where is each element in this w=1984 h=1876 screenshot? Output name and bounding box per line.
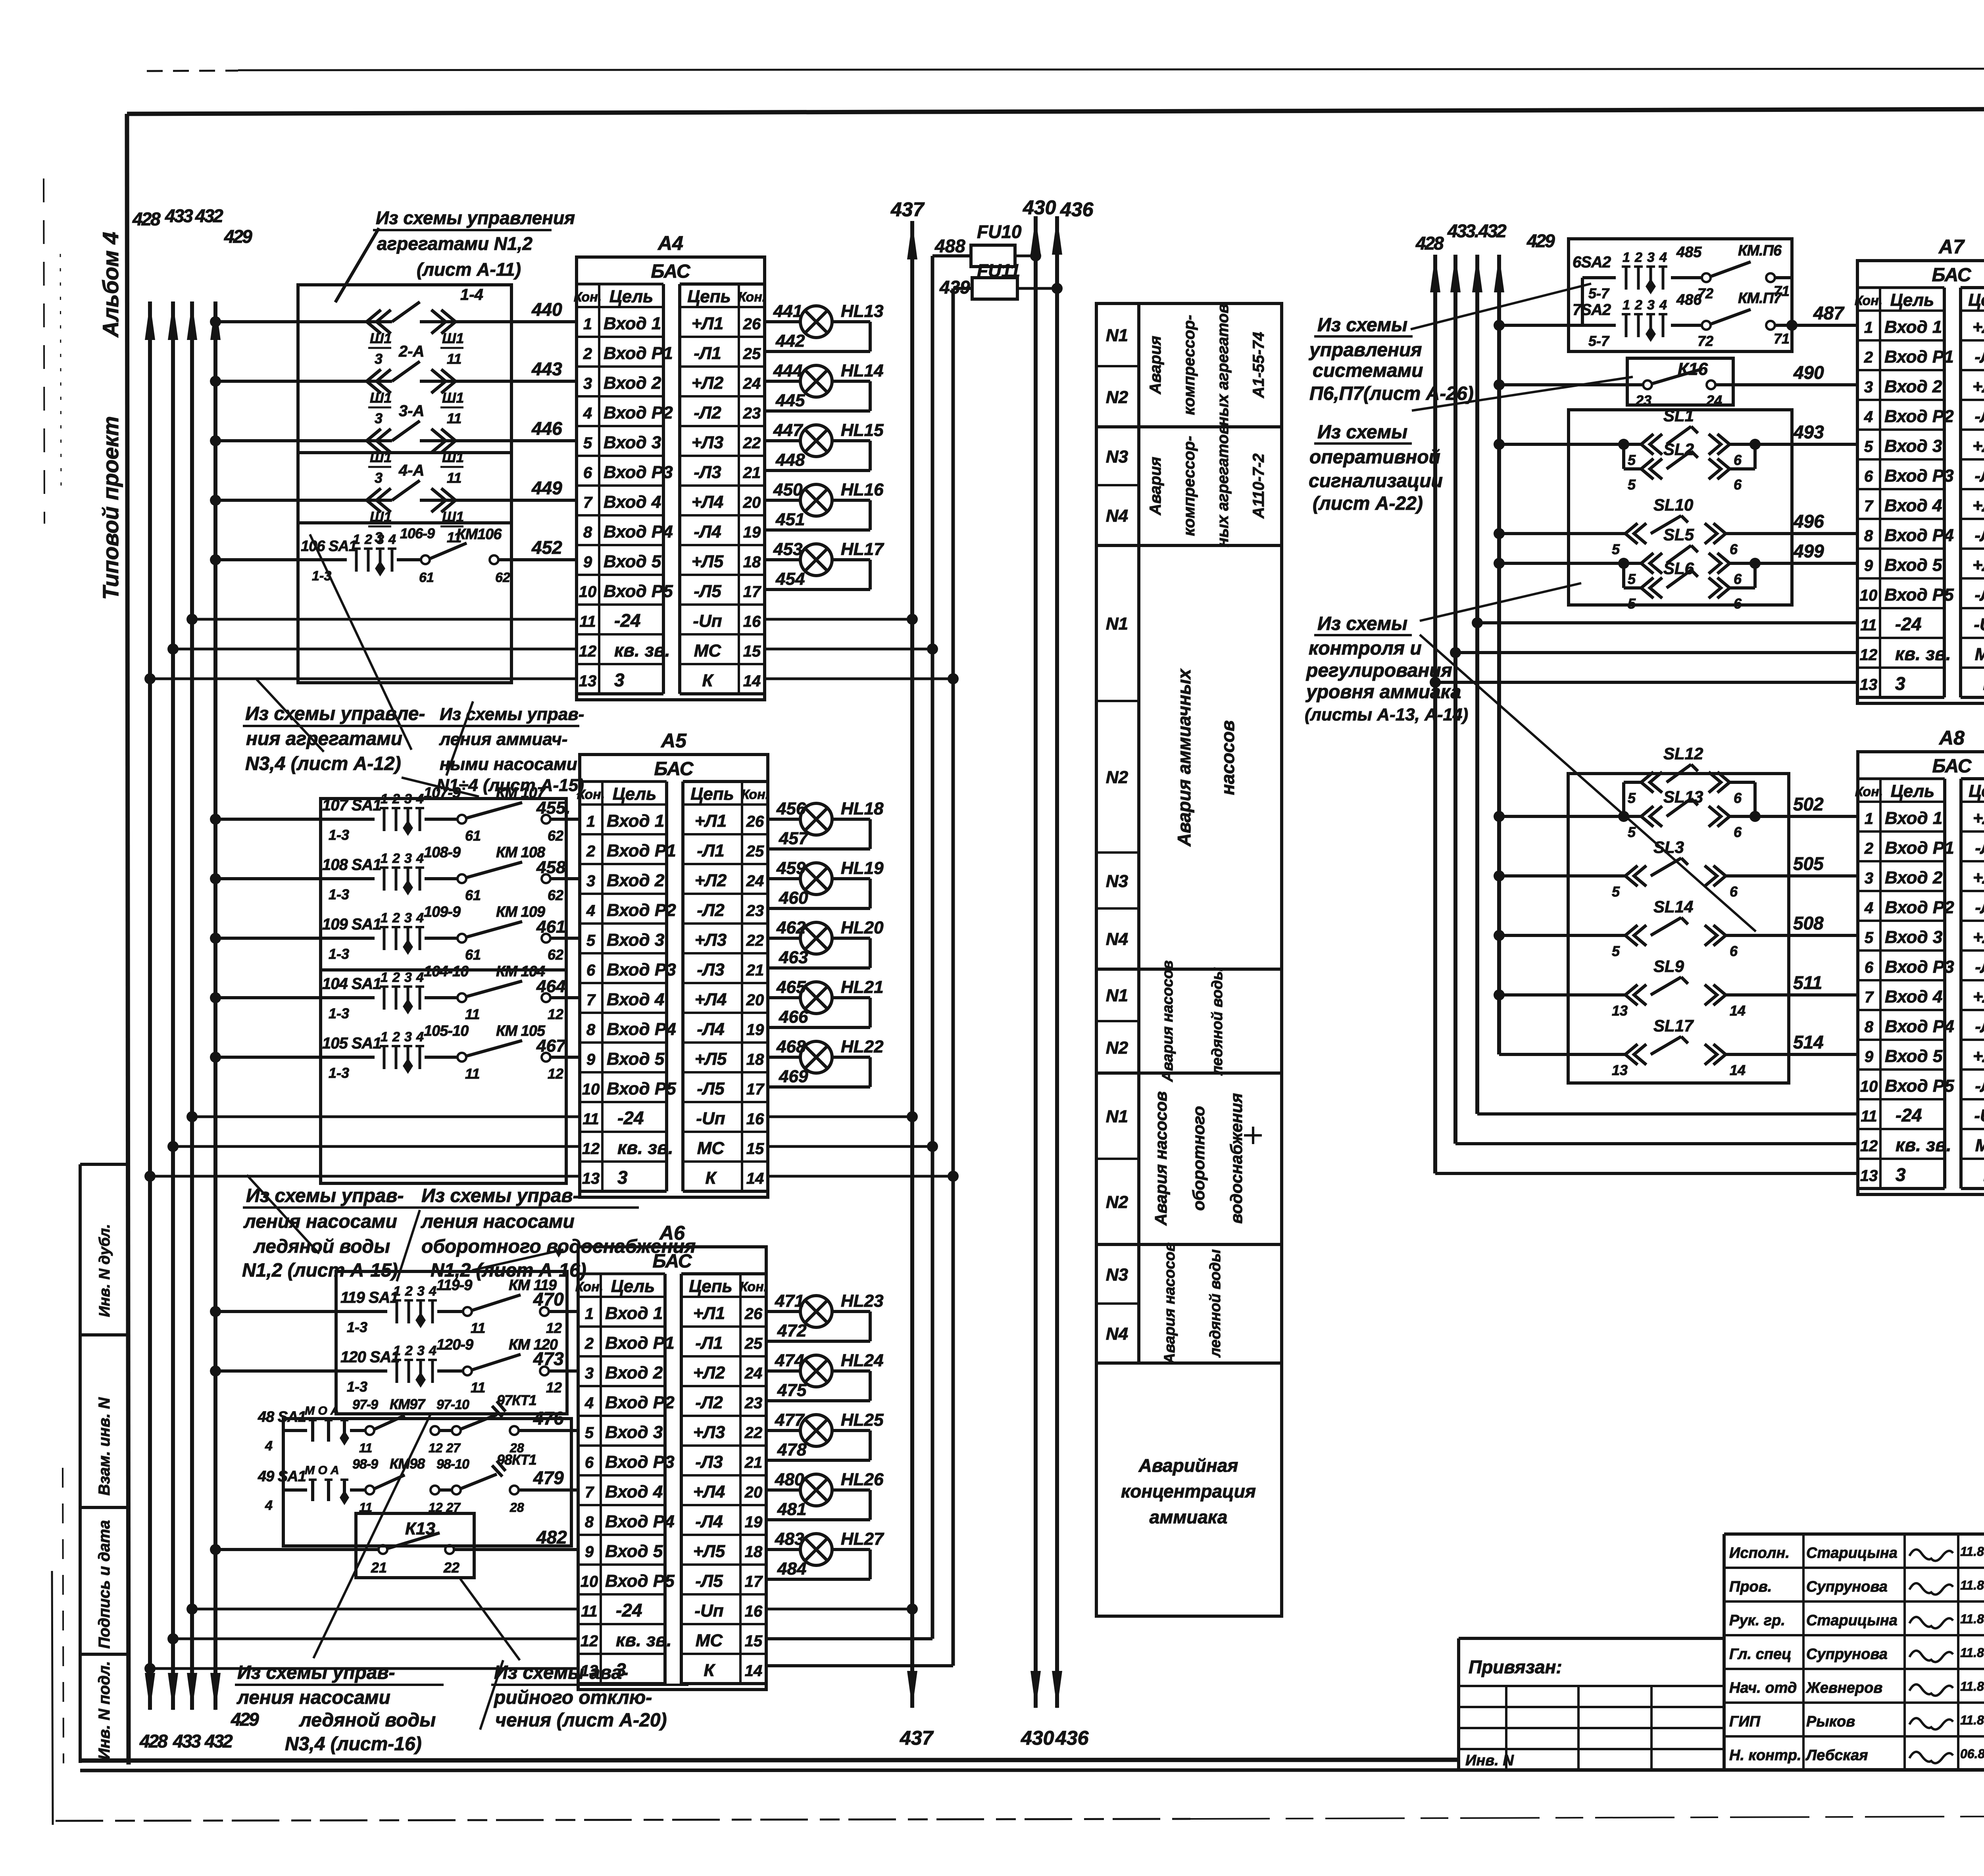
svg-text:428: 428 <box>139 1731 168 1751</box>
svg-text:Ш1: Ш1 <box>370 330 392 346</box>
svg-text:ления насосами: ления насосами <box>421 1211 575 1232</box>
svg-text:464: 464 <box>536 977 565 996</box>
svg-text:4: 4 <box>583 405 592 422</box>
svg-text:3: 3 <box>617 1167 628 1188</box>
svg-text:62: 62 <box>548 947 563 963</box>
svg-text:агрегатами N1,2: агрегатами N1,2 <box>377 233 533 254</box>
svg-text:Вход Р2: Вход Р2 <box>604 403 673 422</box>
svg-text:6: 6 <box>1734 824 1742 840</box>
svg-text:+Л4: +Л4 <box>1973 987 1984 1006</box>
svg-text:17: 17 <box>746 1081 765 1098</box>
svg-text:48 SA1: 48 SA1 <box>258 1409 306 1425</box>
svg-text:1: 1 <box>393 1343 401 1358</box>
svg-text:МС: МС <box>1975 1136 1984 1155</box>
svg-text:10: 10 <box>579 583 597 601</box>
svg-text:4: 4 <box>1659 250 1667 265</box>
svg-text:-Л1: -Л1 <box>697 841 724 860</box>
svg-text:Инв. N дубл.: Инв. N дубл. <box>96 1224 113 1317</box>
svg-text:Из схемы управления: Из схемы управления <box>376 207 575 228</box>
svg-text:-24: -24 <box>616 1600 642 1621</box>
svg-text:К: К <box>702 671 714 690</box>
svg-text:2: 2 <box>1634 298 1642 313</box>
svg-text:Вход 2: Вход 2 <box>605 1363 663 1383</box>
svg-text:4: 4 <box>265 1438 273 1454</box>
svg-text:437: 437 <box>890 198 925 221</box>
svg-text:22: 22 <box>744 1424 763 1442</box>
svg-text:ния агрегатами: ния агрегатами <box>246 728 402 749</box>
svg-text:Авария насосов: Авария насосов <box>1159 960 1176 1082</box>
svg-text:443: 443 <box>531 359 562 379</box>
svg-text:3: 3 <box>1647 298 1655 313</box>
svg-text:7SA2: 7SA2 <box>1573 301 1611 319</box>
svg-text:9: 9 <box>586 1051 596 1068</box>
svg-text:23: 23 <box>1635 392 1651 409</box>
svg-text:Цепь: Цепь <box>1968 290 1984 310</box>
svg-text:12: 12 <box>548 1066 563 1082</box>
svg-text:А8: А8 <box>1938 727 1965 749</box>
svg-text:16: 16 <box>745 1603 763 1620</box>
svg-text:3: 3 <box>404 851 412 866</box>
svg-text:20: 20 <box>746 991 764 1009</box>
svg-text:кв. зв.: кв. зв. <box>616 1630 672 1650</box>
svg-text:кв. зв.: кв. зв. <box>1896 1135 1951 1155</box>
svg-text:-Uп: -Uп <box>1974 615 1984 634</box>
svg-text:459: 459 <box>776 858 806 878</box>
svg-text:120 SA1: 120 SA1 <box>340 1348 400 1366</box>
svg-text:МС: МС <box>694 641 722 661</box>
svg-text:-Л4: -Л4 <box>695 1512 723 1531</box>
svg-text:компрессор-: компрессор- <box>1180 315 1198 415</box>
svg-text:445: 445 <box>775 391 805 410</box>
svg-text:20: 20 <box>743 494 761 511</box>
svg-text:21: 21 <box>746 962 764 979</box>
svg-text:13: 13 <box>1612 1062 1628 1078</box>
svg-text:436: 436 <box>1055 1727 1089 1749</box>
svg-text:22: 22 <box>746 932 764 949</box>
svg-text:-Uп: -Uп <box>694 1601 723 1621</box>
svg-text:4: 4 <box>1864 408 1873 426</box>
svg-text:3: 3 <box>1895 673 1905 694</box>
svg-text:428: 428 <box>1415 233 1444 253</box>
svg-text:1-3: 1-3 <box>329 886 349 902</box>
svg-text:Вход 2: Вход 2 <box>1884 377 1942 396</box>
svg-text:HL17: HL17 <box>841 540 884 559</box>
svg-text:SL1: SL1 <box>1663 406 1694 425</box>
svg-text:Взам. инв. N: Взам. инв. N <box>96 1397 113 1496</box>
svg-text:11: 11 <box>447 470 461 486</box>
svg-text:Старицына: Старицына <box>1806 1612 1897 1629</box>
svg-text:Из схемы: Из схемы <box>1317 315 1407 336</box>
svg-text:98-9: 98-9 <box>352 1457 378 1472</box>
svg-text:А4: А4 <box>657 232 683 254</box>
svg-text:Вход 2: Вход 2 <box>607 871 665 890</box>
svg-text:433: 433 <box>165 205 193 226</box>
svg-text:HL23: HL23 <box>841 1291 884 1311</box>
svg-text:N1: N1 <box>1106 326 1128 345</box>
svg-text:Ш1: Ш1 <box>370 509 392 525</box>
svg-text:-Л2: -Л2 <box>697 901 725 920</box>
svg-text:14: 14 <box>1730 1062 1746 1078</box>
svg-text:8: 8 <box>1864 527 1873 545</box>
svg-text:15: 15 <box>743 643 761 660</box>
svg-text:6: 6 <box>1734 476 1742 493</box>
svg-text:+Л5: +Л5 <box>695 1049 727 1069</box>
svg-text:Вход 1: Вход 1 <box>607 811 664 831</box>
svg-text:3: 3 <box>375 470 383 486</box>
svg-text:Из схемы управ-: Из схемы управ- <box>246 1185 404 1206</box>
svg-text:N2: N2 <box>1106 1192 1128 1212</box>
svg-text:оперативной: оперативной <box>1309 447 1440 468</box>
svg-text:476: 476 <box>533 1408 564 1429</box>
svg-text:+Л2: +Л2 <box>695 871 727 890</box>
svg-text:Цель: Цель <box>613 784 657 804</box>
svg-text:441: 441 <box>773 301 802 321</box>
svg-text:регулирования: регулирования <box>1305 660 1452 681</box>
svg-text:-Л2: -Л2 <box>1975 898 1984 917</box>
svg-text:-24: -24 <box>1896 1105 1922 1125</box>
svg-text:Инв. N: Инв. N <box>1465 1752 1514 1769</box>
svg-text:-Uп: -Uп <box>696 1109 725 1128</box>
svg-text:11: 11 <box>583 1110 599 1128</box>
svg-text:Авария: Авария <box>1147 457 1164 515</box>
svg-text:451: 451 <box>775 510 805 529</box>
svg-text:8: 8 <box>583 524 592 541</box>
svg-text:Инв. N подл.: Инв. N подл. <box>96 1661 113 1760</box>
svg-text:А110-7-2: А110-7-2 <box>1250 453 1267 519</box>
svg-text:Старицына: Старицына <box>1806 1545 1897 1561</box>
svg-text:Вход 3: Вход 3 <box>604 433 661 452</box>
svg-text:уровня аммиака: уровня аммиака <box>1305 682 1461 703</box>
svg-text:N3: N3 <box>1106 447 1128 467</box>
svg-text:4: 4 <box>1659 298 1667 313</box>
svg-text:HL25: HL25 <box>841 1410 884 1430</box>
svg-text:10: 10 <box>582 1081 600 1098</box>
svg-text:28: 28 <box>509 1500 524 1515</box>
svg-text:1: 1 <box>381 1029 388 1045</box>
svg-text:4: 4 <box>1864 899 1873 917</box>
svg-text:-Л1: -Л1 <box>1975 838 1984 858</box>
svg-text:2: 2 <box>392 1029 400 1045</box>
svg-text:3: 3 <box>1864 378 1873 396</box>
svg-text:HL21: HL21 <box>841 977 884 997</box>
svg-text:Пров.: Пров. <box>1729 1578 1772 1595</box>
svg-text:2: 2 <box>405 1284 413 1299</box>
svg-text:453: 453 <box>773 540 802 559</box>
svg-text:11: 11 <box>359 1441 372 1455</box>
svg-text:3: 3 <box>1647 250 1655 265</box>
svg-text:+Л3: +Л3 <box>693 1423 725 1442</box>
svg-text:61: 61 <box>419 570 434 585</box>
svg-text:1-3: 1-3 <box>347 1319 367 1335</box>
svg-text:БАС: БАС <box>651 261 690 282</box>
svg-text:аммиака: аммиака <box>1150 1507 1228 1527</box>
svg-text:-Л5: -Л5 <box>694 582 721 601</box>
svg-text:475: 475 <box>777 1381 807 1400</box>
svg-text:Кон.: Кон. <box>574 290 602 305</box>
svg-text:106-9: 106-9 <box>400 525 435 541</box>
svg-text:N3,4 (лист-16): N3,4 (лист-16) <box>285 1734 422 1755</box>
svg-text:Вход 2: Вход 2 <box>604 373 661 393</box>
svg-text:контроля и: контроля и <box>1309 638 1422 659</box>
svg-text:водоснабжения: водоснабжения <box>1227 1093 1246 1223</box>
svg-text:12: 12 <box>548 1006 563 1022</box>
svg-text:5: 5 <box>1612 541 1620 557</box>
svg-text:Вход Р5: Вход Р5 <box>604 582 673 601</box>
svg-text:5: 5 <box>583 434 592 452</box>
svg-text:429: 429 <box>224 226 252 247</box>
svg-text:(лист А-11): (лист А-11) <box>417 259 521 280</box>
svg-text:SL5: SL5 <box>1663 525 1694 544</box>
svg-text:Вход 5: Вход 5 <box>604 552 661 571</box>
svg-text:11.85: 11.85 <box>1960 1544 1984 1559</box>
svg-text:12: 12 <box>1860 1137 1878 1155</box>
svg-text:481: 481 <box>777 1500 806 1519</box>
svg-text:7: 7 <box>583 494 593 511</box>
svg-text:11: 11 <box>1861 1108 1877 1125</box>
svg-text:11: 11 <box>581 1603 598 1620</box>
svg-text:Цепь: Цепь <box>689 1277 732 1296</box>
svg-text:1: 1 <box>1623 298 1630 313</box>
svg-text:М О А: М О А <box>305 1464 339 1477</box>
svg-text:8: 8 <box>585 1513 594 1531</box>
svg-text:ных агрегатов: ных агрегатов <box>1214 425 1232 547</box>
svg-text:508: 508 <box>1793 913 1824 933</box>
svg-text:Вход Р4: Вход Р4 <box>1884 526 1954 545</box>
svg-text:23: 23 <box>744 1394 763 1412</box>
svg-text:-Л5: -Л5 <box>697 1079 725 1098</box>
svg-text:4: 4 <box>416 851 424 866</box>
svg-text:N3: N3 <box>1106 872 1128 891</box>
svg-text:11.85: 11.85 <box>1960 1578 1984 1592</box>
svg-text:1-3: 1-3 <box>329 1005 349 1022</box>
svg-text:119 SA1: 119 SA1 <box>340 1289 398 1306</box>
svg-text:+Л5: +Л5 <box>1972 555 1984 575</box>
svg-text:120-9: 120-9 <box>436 1336 473 1353</box>
svg-text:23: 23 <box>746 902 764 920</box>
svg-text:4: 4 <box>265 1498 273 1513</box>
svg-text:ления насосами: ления насосами <box>243 1211 397 1232</box>
svg-text:6: 6 <box>1864 468 1873 485</box>
svg-text:448: 448 <box>775 450 805 470</box>
svg-text:Супрунова: Супрунова <box>1806 1646 1888 1663</box>
svg-text:472: 472 <box>777 1321 807 1340</box>
svg-text:430: 430 <box>1023 196 1056 219</box>
svg-text:109 SA1: 109 SA1 <box>322 916 381 933</box>
svg-text:Вход Р4: Вход Р4 <box>605 1512 675 1531</box>
svg-text:1-4: 1-4 <box>460 286 483 303</box>
svg-text:3: 3 <box>404 1029 412 1045</box>
svg-text:оборотного: оборотного <box>1189 1106 1208 1211</box>
svg-text:3: 3 <box>1896 1164 1906 1185</box>
svg-text:3: 3 <box>375 351 383 367</box>
svg-text:HL22: HL22 <box>841 1037 884 1056</box>
svg-text:1-3: 1-3 <box>329 827 349 843</box>
svg-text:ледяной воды: ледяной воды <box>299 1710 436 1731</box>
svg-text:446: 446 <box>531 418 562 439</box>
svg-text:Вход 1: Вход 1 <box>1885 808 1942 828</box>
svg-text:1-3: 1-3 <box>329 946 349 962</box>
svg-text:-Л2: -Л2 <box>1974 407 1984 426</box>
svg-text:5-7: 5-7 <box>1588 285 1610 301</box>
svg-text:Альбом 4: Альбом 4 <box>98 232 123 338</box>
svg-text:А7: А7 <box>1938 236 1965 258</box>
svg-text:SL13: SL13 <box>1663 787 1703 806</box>
svg-text:5: 5 <box>585 1424 594 1442</box>
svg-text:17: 17 <box>745 1573 763 1590</box>
svg-text:2: 2 <box>583 345 592 363</box>
svg-text:5: 5 <box>1864 438 1873 455</box>
svg-text:470: 470 <box>533 1289 564 1310</box>
svg-text:Ш1: Ш1 <box>370 449 392 465</box>
svg-text:457: 457 <box>779 829 809 848</box>
svg-text:9: 9 <box>1864 557 1873 574</box>
svg-text:493: 493 <box>1793 422 1824 442</box>
svg-text:1-3: 1-3 <box>347 1379 367 1395</box>
svg-text:3: 3 <box>404 791 412 806</box>
svg-text:Цель: Цель <box>1891 782 1935 801</box>
svg-text:SL17: SL17 <box>1653 1016 1694 1035</box>
svg-text:Кон.: Кон. <box>1855 293 1882 308</box>
svg-text:Вход Р2: Вход Р2 <box>607 901 676 920</box>
svg-text:Авария: Авария <box>1147 336 1164 394</box>
svg-text:11.85: 11.85 <box>1960 1646 1984 1660</box>
svg-text:SL2: SL2 <box>1663 440 1694 459</box>
svg-text:462: 462 <box>776 918 806 937</box>
svg-text:5: 5 <box>1612 943 1620 959</box>
svg-text:кв. зв.: кв. зв. <box>617 1137 673 1158</box>
svg-text:Ш1: Ш1 <box>442 509 464 525</box>
svg-text:Вход 1: Вход 1 <box>604 314 661 333</box>
svg-text:7: 7 <box>1865 989 1874 1006</box>
svg-text:485: 485 <box>1676 244 1702 261</box>
svg-text:11: 11 <box>447 410 461 426</box>
svg-text:5: 5 <box>1628 790 1636 806</box>
svg-text:Вход Р3: Вход Р3 <box>1884 466 1954 486</box>
svg-text:МС: МС <box>697 1139 725 1158</box>
svg-text:430: 430 <box>1021 1727 1054 1749</box>
svg-text:1: 1 <box>1865 810 1873 828</box>
svg-text:БАС: БАС <box>1932 265 1971 286</box>
svg-text:1: 1 <box>585 1305 594 1323</box>
svg-text:Из схемы: Из схемы <box>1317 613 1407 634</box>
svg-text:6: 6 <box>586 962 596 979</box>
svg-text:N2: N2 <box>1106 768 1128 787</box>
svg-text:Авария насосов: Авария насосов <box>1161 1242 1178 1364</box>
svg-text:12: 12 <box>582 1140 600 1158</box>
svg-text:-Л5: -Л5 <box>1974 585 1984 605</box>
svg-text:-Л3: -Л3 <box>694 463 721 482</box>
svg-text:26: 26 <box>744 1305 763 1323</box>
svg-text:Вход 4: Вход 4 <box>1885 987 1942 1006</box>
svg-text:9: 9 <box>583 553 592 571</box>
svg-text:Вход 5: Вход 5 <box>1884 555 1942 575</box>
svg-text:468: 468 <box>776 1037 806 1056</box>
svg-text:концентрация: концентрация <box>1121 1481 1256 1502</box>
svg-text:N1: N1 <box>1106 986 1128 1005</box>
svg-text:109-9: 109-9 <box>424 904 461 920</box>
svg-text:-Л3: -Л3 <box>697 960 724 979</box>
svg-text:4: 4 <box>416 1029 424 1045</box>
svg-text:3: 3 <box>404 970 412 985</box>
svg-text:Вход Р1: Вход Р1 <box>607 841 676 860</box>
svg-text:SL14: SL14 <box>1653 897 1693 916</box>
svg-text:469: 469 <box>779 1067 808 1086</box>
svg-text:2: 2 <box>364 532 372 547</box>
svg-text:460: 460 <box>779 888 808 908</box>
svg-text:-Л3: -Л3 <box>1974 466 1984 486</box>
svg-text:К: К <box>705 1168 717 1188</box>
svg-text:6: 6 <box>1730 883 1738 900</box>
svg-text:18: 18 <box>745 1543 763 1561</box>
svg-text:19: 19 <box>743 524 761 541</box>
svg-text:Вход 4: Вход 4 <box>604 492 661 512</box>
svg-text:12: 12 <box>546 1320 562 1336</box>
svg-text:МС: МС <box>696 1631 723 1650</box>
svg-text:14: 14 <box>1730 1002 1746 1019</box>
svg-text:465: 465 <box>776 977 806 997</box>
svg-text:61: 61 <box>465 828 481 844</box>
svg-text:455.: 455. <box>536 798 571 818</box>
svg-text:11.85: 11.85 <box>1960 1679 1984 1694</box>
svg-text:13: 13 <box>579 672 597 690</box>
svg-text:управления: управления <box>1309 340 1422 361</box>
svg-text:20: 20 <box>744 1484 763 1501</box>
svg-text:2: 2 <box>1864 349 1873 366</box>
svg-text:Цель: Цель <box>611 1277 655 1296</box>
svg-text:Цепь: Цепь <box>690 784 734 804</box>
svg-text:+Л5: +Л5 <box>692 552 724 571</box>
svg-text:Кон.: Кон. <box>741 787 769 802</box>
svg-text:2: 2 <box>392 791 400 806</box>
svg-text:24: 24 <box>746 872 764 890</box>
svg-text:5: 5 <box>1628 452 1636 468</box>
svg-text:Цепь: Цепь <box>1969 782 1984 801</box>
svg-text:4: 4 <box>416 791 424 806</box>
svg-text:SL6: SL6 <box>1663 559 1694 578</box>
svg-text:13: 13 <box>1860 676 1878 693</box>
svg-text:432: 432 <box>1478 221 1507 241</box>
svg-text:21: 21 <box>371 1559 387 1576</box>
svg-text:1: 1 <box>583 315 592 333</box>
svg-text:+Л3: +Л3 <box>1972 436 1984 456</box>
svg-text:Вход 3: Вход 3 <box>605 1423 663 1442</box>
svg-text:2: 2 <box>405 1343 413 1358</box>
svg-text:4: 4 <box>584 1394 594 1412</box>
svg-text:447: 447 <box>773 421 804 440</box>
svg-text:SL12: SL12 <box>1663 744 1703 763</box>
svg-text:9: 9 <box>585 1543 594 1561</box>
svg-text:21: 21 <box>743 464 761 482</box>
svg-text:11.85: 11.85 <box>1960 1612 1984 1626</box>
svg-text:Из схемы ава-: Из схемы ава- <box>494 1662 628 1683</box>
svg-text:1: 1 <box>381 970 388 985</box>
svg-text:108-9: 108-9 <box>424 844 461 861</box>
svg-text:HL15: HL15 <box>841 421 884 440</box>
svg-text:463: 463 <box>779 948 808 967</box>
svg-text:104 SA1: 104 SA1 <box>322 975 381 993</box>
svg-text:Исполн.: Исполн. <box>1729 1545 1790 1561</box>
svg-text:6SA2: 6SA2 <box>1573 253 1611 271</box>
svg-text:+Л1: +Л1 <box>693 1304 725 1323</box>
svg-text:Вход 4: Вход 4 <box>1884 496 1942 515</box>
svg-text:Из схемы: Из схемы <box>1317 422 1407 443</box>
svg-text:HL19: HL19 <box>841 858 884 878</box>
svg-text:Авария аммиачных: Авария аммиачных <box>1174 668 1194 847</box>
svg-text:429: 429 <box>1526 230 1555 251</box>
svg-text:2: 2 <box>586 843 595 860</box>
svg-text:458: 458 <box>536 858 566 877</box>
svg-text:Вход 1: Вход 1 <box>605 1304 663 1323</box>
